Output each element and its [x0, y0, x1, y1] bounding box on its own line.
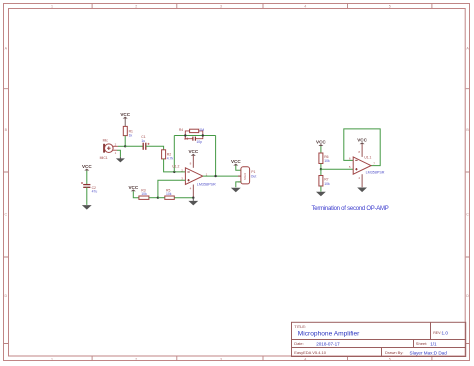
svg-text:LM358PSR: LM358PSR [197, 183, 216, 187]
svg-text:C: C [466, 213, 469, 217]
svg-text:VCC: VCC [357, 138, 367, 143]
ground (P1) [231, 188, 241, 193]
svg-text:Drawn By:: Drawn By: [385, 350, 403, 355]
VCC flag (R6) [316, 140, 326, 154]
svg-text:5: 5 [389, 5, 391, 9]
svg-text:4: 4 [304, 357, 306, 361]
capacitor C1 [141, 135, 149, 150]
capacitor C2 [81, 182, 97, 194]
wire node to + input [321, 168, 353, 170]
svg-text:Mic: Mic [103, 139, 109, 143]
svg-text:1u: 1u [141, 139, 145, 143]
svg-text:REV:: REV: [433, 331, 441, 335]
wire U1.1 pin4 down [361, 174, 363, 187]
svg-text:VCC: VCC [120, 112, 130, 117]
node E (divider) [157, 197, 159, 199]
svg-text:VCC: VCC [316, 140, 326, 145]
svg-text:10k: 10k [324, 182, 330, 186]
svg-text:4.7k: 4.7k [167, 156, 174, 160]
wire feedback loop U1.1 [344, 129, 380, 166]
svg-text:1.0: 1.0 [442, 330, 449, 335]
wire feedback left vertical [173, 136, 175, 172]
wire R3 to node [149, 197, 158, 199]
border ticks right [466, 89, 470, 344]
wire R1 to node [124, 136, 126, 147]
node C (feedback left) [184, 134, 186, 136]
node B (feedback / inv input) [173, 171, 175, 173]
wire node to R5 [158, 197, 165, 199]
VCC flag (C2) [82, 164, 92, 184]
resistor R5 [165, 189, 175, 200]
svg-text:Date:: Date: [294, 341, 304, 346]
svg-text:1: 1 [51, 357, 53, 361]
svg-text:P1: P1 [251, 170, 255, 174]
svg-text:1k: 1k [129, 134, 133, 138]
ground (U1.2) [188, 198, 198, 206]
wire output [203, 175, 241, 177]
svg-text:EasyEDA V5.4.10: EasyEDA V5.4.10 [294, 350, 327, 355]
svg-text:10k: 10k [324, 159, 330, 163]
node F (gnd) [192, 197, 194, 199]
svg-text:VCC: VCC [82, 164, 92, 169]
VCC flag (U1.2 pin8) [188, 149, 198, 168]
ground (mic) [116, 157, 125, 163]
svg-text:Termination of second OP-AMP: Termination of second OP-AMP [312, 206, 389, 212]
svg-text:4: 4 [304, 5, 306, 9]
resistor R4 [179, 128, 204, 135]
svg-text:VCC: VCC [188, 149, 198, 154]
svg-text:5: 5 [389, 357, 391, 361]
wire R2 to inverting input [164, 159, 186, 172]
svg-text:VCC: VCC [128, 185, 138, 190]
svg-text:TITLE:: TITLE: [294, 324, 306, 329]
svg-text:M1x3: M1x3 [243, 173, 247, 180]
svg-text:Out: Out [251, 174, 257, 178]
svg-text:C4: C4 [184, 137, 188, 141]
op-amp U1.1 [349, 150, 385, 180]
node A (mic/R1/C1) [124, 145, 126, 147]
VCC flag (R1 top) [120, 112, 130, 126]
wire P1 pin3 to ground [236, 182, 241, 187]
svg-text:47u: 47u [92, 190, 98, 194]
svg-text:2018-07-17: 2018-07-17 [316, 341, 340, 346]
svg-text:1M: 1M [199, 128, 204, 132]
ground (C2) [82, 205, 92, 210]
wire U1.2 pin4 down [192, 185, 194, 198]
svg-text:10k: 10k [166, 192, 172, 196]
wire R5 to gnd node [174, 197, 193, 199]
svg-text:U1.2: U1.2 [172, 165, 179, 169]
wire node to C1 [125, 145, 143, 147]
resistor R3 [139, 189, 149, 200]
svg-text:U1.1: U1.1 [364, 155, 371, 159]
ground (R7) [316, 192, 326, 197]
node H [320, 168, 322, 170]
border ticks left [4, 89, 9, 344]
svg-text:C: C [4, 213, 7, 217]
wire feedback right vertical [215, 136, 217, 177]
svg-text:D: D [466, 294, 469, 298]
svg-text:MIC1: MIC1 [100, 156, 108, 160]
svg-text:3: 3 [220, 357, 222, 361]
resistor R6 [319, 153, 330, 164]
wire R6 to node [320, 164, 322, 170]
svg-text:Slayer Max:D Dad: Slayer Max:D Dad [410, 350, 448, 355]
svg-text:1/1: 1/1 [430, 341, 437, 346]
svg-text:10k: 10k [141, 192, 147, 196]
wire C2 to ground [86, 187, 88, 205]
op-amp U1.2 [172, 161, 216, 190]
svg-text:2: 2 [135, 5, 137, 9]
connector P1 [238, 167, 256, 184]
svg-text:R4: R4 [179, 128, 183, 132]
node D (feedback right) [202, 134, 204, 136]
capacitor C4 [184, 136, 203, 144]
VCC flag (R3) [128, 185, 138, 198]
wire mic pin1 down [117, 150, 120, 157]
resistor R2 [162, 150, 174, 161]
wire feedback top [174, 135, 215, 137]
border ticks bottom [92, 357, 432, 361]
svg-text:Sheet:: Sheet: [416, 341, 428, 346]
wire + input [158, 180, 186, 198]
ground (U1.1) [357, 188, 367, 193]
wire mic pin2 to node [118, 145, 125, 147]
node G (output/feedback) [214, 175, 216, 177]
VCC flag (U1.1 pin8) [357, 138, 367, 157]
wire R7 to ground [320, 186, 322, 192]
svg-text:10p: 10p [196, 140, 202, 144]
svg-text:LM358PSR: LM358PSR [366, 170, 385, 174]
resistor R1 [123, 126, 133, 137]
wire C1 to R2 [146, 146, 164, 150]
VCC flag (P1) [231, 159, 241, 170]
svg-text:2: 2 [135, 357, 137, 361]
svg-text:D: D [4, 294, 7, 298]
svg-text:VCC: VCC [231, 159, 241, 164]
resistor R7 [319, 169, 330, 186]
svg-text:Microphone Amplifier: Microphone Amplifier [298, 331, 360, 338]
svg-text:3: 3 [220, 5, 222, 9]
svg-text:1: 1 [51, 5, 53, 9]
microphone MIC1 [100, 139, 118, 160]
